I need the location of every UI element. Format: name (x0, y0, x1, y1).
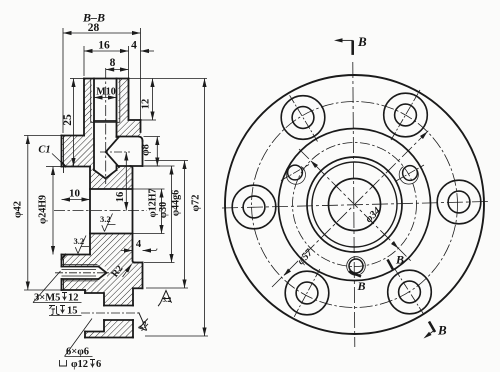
left face mid (61, 259, 63, 266)
phi42 bottom extension stub (24, 289, 62, 291)
arrowhead at 184.5,160.5 (182, 161, 186, 170)
phi8 hole bottom wall / recess top wall (119, 165, 143, 167)
phi42 top extension stub (46, 166, 62, 168)
arrowhead at 53,254.5 (51, 246, 55, 255)
left face upper (61, 136, 63, 163)
phi8 extension lines (144, 137, 161, 167)
M5 hole bottom (347, 257, 366, 276)
M10 thread crest lines (91, 79, 120, 123)
cutting plane B bottom exit segment and arrow (429, 322, 435, 333)
arrowhead at 73.5,78.5 (71, 79, 75, 88)
phi6 hole walls (104, 306, 133, 321)
bolt hole left (232, 185, 276, 229)
arrowhead at 105.7,69.5 (106, 67, 115, 71)
thin feature lines (62, 79, 120, 281)
svg-text:3.2: 3.2 (137, 319, 150, 332)
surface mark 3.2 in phi12 hole (100, 214, 116, 232)
svg-text:φ12H7: φ12H7 (148, 188, 159, 217)
cutting plane bend segment at M5 hole (349, 272, 361, 277)
section hatching mid block below phi12 hole (90, 234, 133, 263)
svg-text:φ24H9: φ24H9 (38, 195, 49, 224)
svg-text:3.2: 3.2 (100, 214, 111, 224)
leader 3xM5 (33, 271, 82, 316)
bolt hole top-left (281, 94, 325, 142)
dim line M10 arrows line (94, 97, 117, 99)
arrowhead at 427.5,131.5 (420, 130, 429, 139)
M10 tapped hole walls (93, 79, 95, 171)
section hatching lower disc above counterbore (85, 290, 133, 293)
part outline (62, 79, 143, 338)
arrowhead at 116.5,97.5 (108, 95, 117, 99)
svg-text:φ30: φ30 (158, 202, 169, 218)
outer flange circle phi72 (225, 75, 484, 334)
dim line 4 tail (141, 50, 155, 52)
section hatching strip left of M10 drill (90, 136, 94, 191)
phi8 hole axis centerline (100, 151, 130, 153)
arrowhead at 398.5,248.5 (391, 241, 400, 250)
M10 hole axis centerline (105, 68, 107, 184)
fillet from phi8 top wall to right face (117, 137, 143, 142)
bottom rim face (85, 337, 133, 339)
arrowhead at 283.5,276 (282, 269, 291, 278)
phi12H7 hole walls (90, 189, 133, 234)
boss right face upper (142, 141, 144, 166)
cutting plane B top: thick segment and arrow (351, 40, 354, 55)
svg-text:12: 12 (68, 293, 79, 304)
step extension for 25/C1 (24, 135, 62, 137)
dim phi8 line (156, 137, 158, 167)
svg-text:B: B (395, 253, 404, 267)
svg-text:15: 15 (67, 306, 78, 317)
svg-text:6: 6 (96, 359, 101, 370)
svg-text:B: B (357, 34, 367, 49)
bore circle phi24H9 (307, 157, 402, 252)
step to 28-wide section (62, 135, 85, 137)
arrowhead at 27.8,290 (26, 282, 30, 291)
section hatching right of M5 hole (107, 267, 133, 280)
M10 thread end line (94, 120, 117, 122)
svg-text:φ72: φ72 (191, 194, 202, 211)
arrowhead at 132.5,250.5 (124, 248, 133, 252)
spotface symbol (60, 360, 67, 366)
arrowhead at 204.5,78.5 (202, 79, 206, 88)
M5 hole top-left (281, 165, 309, 185)
phi8 drill cone (106, 137, 119, 167)
arrowhead at 73.5,166.5 (71, 158, 75, 167)
section hatching right step band (117, 121, 141, 137)
dim line 28 (63, 32, 141, 34)
bolt hole axis centerline (81, 312, 140, 314)
section hatching central block under drill point (94, 166, 133, 189)
svg-text:C1: C1 (38, 145, 50, 156)
lower disc right face (132, 288, 134, 337)
section hatching below M5 hole (62, 279, 133, 290)
arrowhead at 90,199.5 (82, 197, 91, 201)
bolt hole top-right (384, 90, 428, 140)
arrowhead at 157.3,166 (155, 158, 159, 167)
phi30 extension lines (144, 166, 175, 263)
horizontal centerline (222, 202, 488, 209)
arrowhead at 171.5,166 (169, 166, 173, 175)
phi42 bottom face (62, 289, 86, 291)
phi30 recess end wall with R2 fillet (131, 166, 135, 263)
dim 25 line (73, 79, 75, 167)
arrowhead at 184.5,288 (182, 280, 186, 289)
bolt hole right (437, 180, 481, 224)
arrowheads (63, 31, 72, 35)
svg-text:B: B (357, 279, 366, 293)
section hatching boss bottom band (133, 263, 143, 289)
M5 hole top-right (396, 165, 424, 184)
svg-text:25: 25 (62, 114, 74, 126)
arrowhead at 152.5,78.5 (150, 79, 154, 88)
phi24H9 bore bottom wall (62, 254, 91, 256)
left face lower (61, 279, 63, 290)
arrowhead at 84,51 (84, 49, 93, 53)
dim phi72 line (204, 79, 206, 337)
dim 4 boss line (121, 249, 157, 251)
arrowhead at 142.5,250.5 (143, 248, 152, 252)
phi44g6 extension lines (145, 161, 189, 289)
chamfer circle (312, 162, 397, 247)
step at y=120 (129, 119, 141, 121)
arrowhead at 161.5,189 (159, 189, 163, 198)
surface mark 3.2 large right of boss (158, 291, 172, 307)
arrowhead at 61.5,199.5 (62, 197, 71, 201)
dim line 8 top (106, 69, 129, 71)
left face chamfer double line (63, 136, 65, 173)
leader R2 (123, 265, 132, 278)
depth symbol for counterbore (90, 360, 95, 367)
svg-text:M10: M10 (96, 87, 115, 98)
section hatching band below phi24 bore (62, 255, 91, 267)
M5 drill cone (99, 267, 107, 280)
phi12H7 extension lines (134, 189, 165, 234)
arrowhead at 140.5,33 (132, 31, 141, 35)
svg-text:φ44g6: φ44g6 (171, 190, 182, 216)
right face above phi8 (140, 120, 142, 132)
M5 hole circle phi34 centerline (293, 143, 417, 267)
surface mark 3.2 on bore bottom (74, 236, 90, 254)
dim phi24H9 line (52, 167, 54, 255)
arrowhead at 161.5,233.5 (159, 225, 163, 234)
arrowhead at 53,166.5 (51, 167, 55, 176)
bore entry chamfer C1 (62, 162, 66, 259)
dim phi30 line (171, 166, 173, 263)
dim 16 lower line (125, 152, 127, 211)
dim phi42 line (27, 136, 29, 291)
leader C1 (52, 154, 62, 163)
left wall of rim (83, 79, 85, 136)
leader 6xphi6 (65, 319, 93, 357)
svg-text:φ12: φ12 (71, 359, 88, 370)
surface mark 3.2 rotated at disc lower right (131, 311, 153, 333)
section hatching upper-right wall (119, 79, 129, 122)
boss bottom face (133, 287, 143, 289)
svg-text:4: 4 (131, 40, 137, 52)
dim phi44g6 line (184, 161, 186, 289)
section hatching lower disc below counterbore (85, 332, 104, 338)
svg-text:φ8: φ8 (141, 144, 152, 156)
svg-text:3.2: 3.2 (163, 296, 172, 304)
inner lines of M5 hole (62, 270, 97, 277)
arrowhead at 310.5,160.5 (309, 159, 318, 168)
arrowhead at 131.5,264.5 (125, 263, 133, 272)
boss circle phi44g6 (279, 129, 431, 281)
hanzi kong (hole) drawn manually (49, 306, 60, 315)
phi72 bottom extension (145, 335, 208, 337)
svg-text:12: 12 (141, 99, 152, 110)
svg-text:8: 8 (110, 57, 116, 69)
arrowhead at 152.5,120 (150, 112, 154, 121)
svg-text:16: 16 (98, 40, 110, 52)
diagonal centerline NE-SW with phi57 dimension (272, 129, 430, 287)
top face extension to left (70, 78, 84, 80)
arrowhead at 171.5,262.5 (169, 254, 173, 263)
svg-text:10: 10 (69, 188, 81, 200)
svg-text:φ42: φ42 (13, 201, 24, 218)
arrowhead at 334,40.4 (334, 38, 343, 42)
extension lines top dims (62, 28, 64, 133)
svg-text:4: 4 (136, 239, 142, 250)
svg-text:B–B: B–B (82, 11, 105, 25)
bolt hole bottom-right (388, 269, 432, 315)
phi24H9 bore top wall (62, 166, 91, 168)
main axis centerline (54, 210, 147, 212)
M5 tapped hole walls (62, 267, 99, 280)
M5 hole axis centerline (55, 272, 112, 274)
svg-text:6×φ6: 6×φ6 (66, 347, 89, 358)
dim 12 line right (152, 79, 154, 121)
depth symbol for M5 note (62, 293, 67, 300)
svg-text:16: 16 (115, 192, 126, 203)
dim phi12H7 line (161, 189, 163, 234)
diagonal centerline NW-SE with phi34 dimension (299, 149, 411, 261)
arrowhead at 204.5,336 (202, 328, 206, 337)
M10 drill point (94, 170, 117, 179)
top face extension to right (129, 78, 208, 80)
vertical centerline (353, 62, 355, 347)
arrowhead at 420.5,341 (422, 332, 431, 340)
arrowhead at 128.5,69.5 (120, 67, 129, 71)
counterbore phi12 walls (85, 293, 104, 332)
arrowhead at 126.3,210.5 (124, 202, 128, 211)
svg-text:3×M5: 3×M5 (34, 293, 60, 304)
phi30 recess bottom wall (135, 262, 143, 264)
arrowhead at 157.3,136.5 (155, 137, 159, 146)
dim line 16 top (84, 50, 129, 52)
bolt circle phi57 centerline (252, 102, 458, 308)
arrowhead at 128.5,51 (120, 49, 129, 53)
dim 10 line (62, 199, 91, 201)
arrowhead at 27.8,135.5 (26, 136, 30, 145)
inner hole circle phi12H7 (329, 179, 381, 231)
boss right face lower (142, 263, 144, 289)
svg-text:3.2: 3.2 (74, 236, 85, 246)
lower disc left face (84, 290, 86, 338)
section hatching upper-left wall (62, 79, 93, 167)
arrowhead at 140.5,51 (141, 49, 150, 53)
arrowhead at 126.3,152 (124, 152, 128, 161)
cutting plane bend segment toward bolt hole (388, 260, 394, 271)
svg-text:B: B (437, 323, 447, 338)
extension of y120 step (141, 119, 157, 121)
M5 thread crest lines (62, 265, 98, 281)
bolt hole bottom-left (285, 269, 329, 317)
phi24H9 bore end face (89, 167, 91, 255)
top face of flange rim (84, 78, 129, 80)
note 3xM5 depth 12 (34, 293, 79, 317)
rim right wall upper (128, 79, 130, 121)
arrowhead at 94,97.5 (94, 95, 103, 99)
